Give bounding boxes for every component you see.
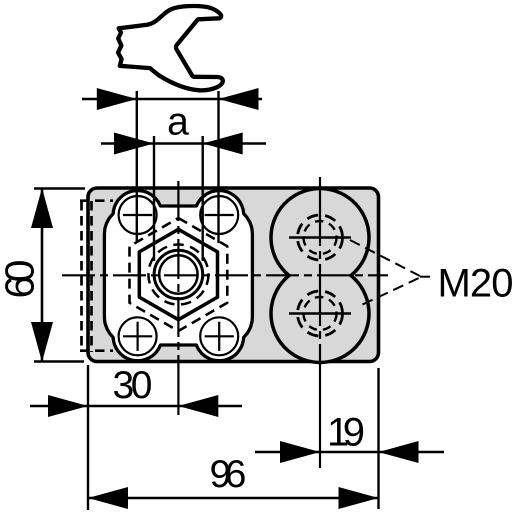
dim 30 extension line bbox=[87, 365, 89, 510]
M20 bottom thread dashed circles bbox=[298, 291, 343, 336]
lobe inner circle BR bbox=[200, 317, 238, 355]
M20 top crosshair bbox=[289, 236, 351, 239]
hidden hexagon dashed bbox=[130, 218, 228, 331]
M20 leader lines bbox=[350, 240, 420, 276]
svg-text:M20: M20 bbox=[438, 262, 514, 306]
M20 holes figure-8 outline bbox=[271, 189, 369, 363]
lobe cross BL bbox=[123, 335, 152, 337]
lobe inner circle TL bbox=[119, 196, 157, 234]
M20 top thread dashed circles bbox=[298, 215, 343, 260]
lobe cross BR bbox=[205, 335, 234, 337]
M20 bottom crosshair bbox=[289, 312, 351, 315]
svg-text:a: a bbox=[167, 101, 189, 144]
dim a extension lines bbox=[153, 136, 155, 261]
horizontal centerline bbox=[62, 274, 388, 276]
center hole outer circle bbox=[154, 250, 203, 299]
dim 30 arrows bbox=[48, 395, 88, 417]
wrench icon bbox=[118, 6, 223, 90]
dim 19 extension line bbox=[377, 368, 379, 509]
dim 19 arrows bbox=[280, 441, 320, 463]
dim 96 arrows bbox=[88, 487, 128, 509]
dim 60 line bbox=[41, 188, 44, 362]
dim row1 extension lines bbox=[136, 91, 138, 243]
lobe inner circle TR bbox=[200, 196, 238, 234]
dim row1 arrows bbox=[97, 88, 137, 110]
body outline bbox=[88, 188, 379, 362]
dim 60 extension lines bbox=[34, 187, 85, 189]
dim a line bbox=[101, 142, 266, 145]
svg-text:19: 19 bbox=[327, 411, 365, 455]
vertical centerline cluster bbox=[177, 181, 179, 365]
lobe inner circle BL bbox=[119, 317, 157, 355]
lobe cross TL bbox=[123, 214, 152, 216]
dim a arrows bbox=[114, 133, 154, 155]
center hole thread dashed circle bbox=[148, 245, 208, 305]
lobe cross TR bbox=[205, 214, 234, 216]
hexagon nut bbox=[139, 229, 217, 319]
center hole inner circle bbox=[159, 255, 197, 293]
svg-text:30: 30 bbox=[113, 364, 153, 407]
hidden clamp plate dashed lines bbox=[80, 201, 113, 352]
dim 19 line bbox=[255, 451, 444, 454]
dim 60 arrows bbox=[31, 188, 53, 228]
svg-text:96: 96 bbox=[210, 453, 247, 496]
dim 30 line bbox=[30, 405, 242, 408]
dim 96 line bbox=[88, 497, 379, 500]
clamp cluster silhouette bbox=[104, 191, 252, 361]
dim row1 line bbox=[82, 98, 262, 101]
vertical centerline M20 bbox=[319, 177, 321, 365]
svg-text:60: 60 bbox=[0, 260, 43, 299]
